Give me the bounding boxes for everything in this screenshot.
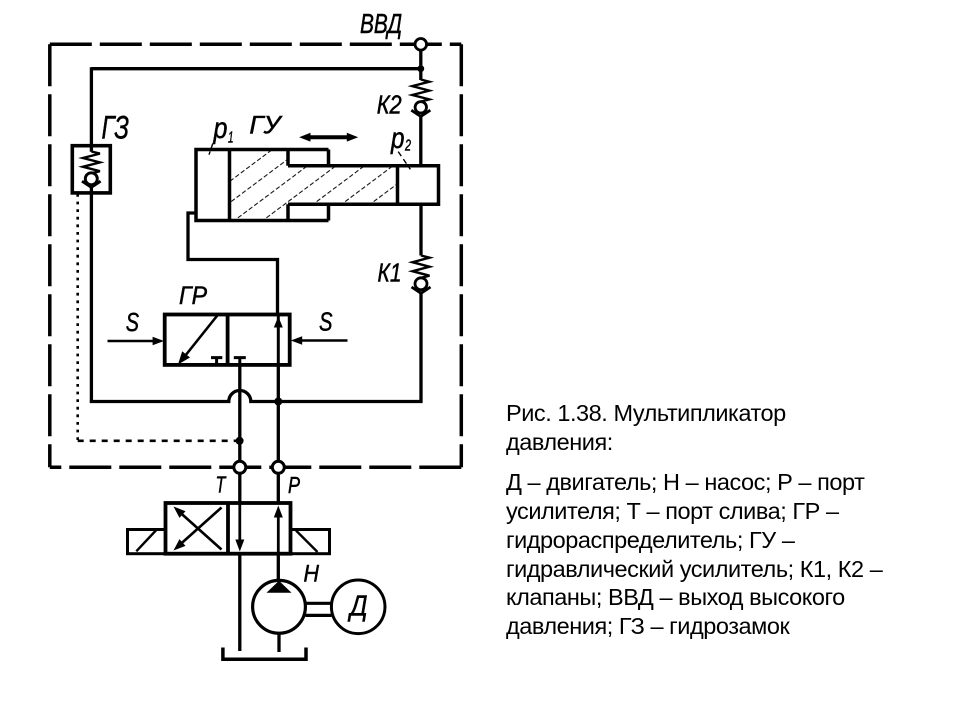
svg-text:p: p	[390, 122, 404, 155]
svg-text:S: S	[319, 307, 333, 337]
svg-text:ГЗ: ГЗ	[102, 110, 130, 146]
svg-text:Д: Д	[347, 591, 367, 623]
svg-text:p: p	[213, 112, 228, 145]
svg-text:Н: Н	[304, 561, 320, 588]
svg-text:ГР: ГР	[179, 282, 207, 310]
svg-text:К1: К1	[378, 258, 402, 288]
svg-text:Р: Р	[288, 472, 301, 498]
svg-text:ГУ: ГУ	[249, 112, 283, 140]
svg-text:К2: К2	[377, 90, 402, 120]
svg-text:ВВД: ВВД	[360, 8, 402, 39]
svg-text:Т: Т	[216, 472, 227, 498]
svg-text:S: S	[126, 307, 140, 337]
svg-text:1: 1	[228, 130, 234, 147]
svg-text:2: 2	[404, 138, 411, 155]
